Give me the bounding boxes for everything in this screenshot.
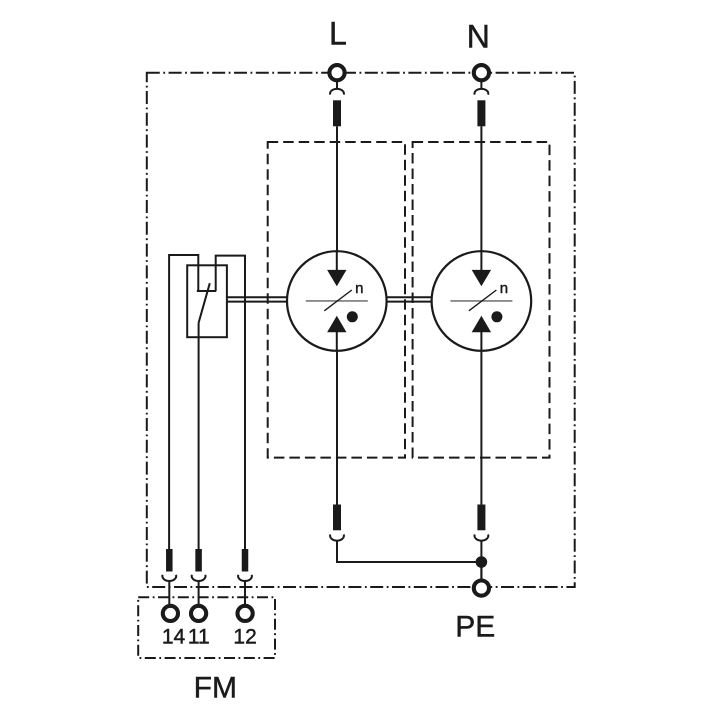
svg-text:12: 12 (233, 626, 256, 649)
svg-text:L: L (329, 16, 347, 52)
svg-text:FM: FM (194, 672, 237, 705)
svg-text:N: N (467, 19, 490, 55)
svg-text:n: n (500, 280, 508, 297)
svg-text:11: 11 (188, 626, 210, 649)
svg-text:14: 14 (162, 626, 186, 649)
svg-text:n: n (355, 280, 363, 297)
svg-text:PE: PE (455, 611, 495, 644)
